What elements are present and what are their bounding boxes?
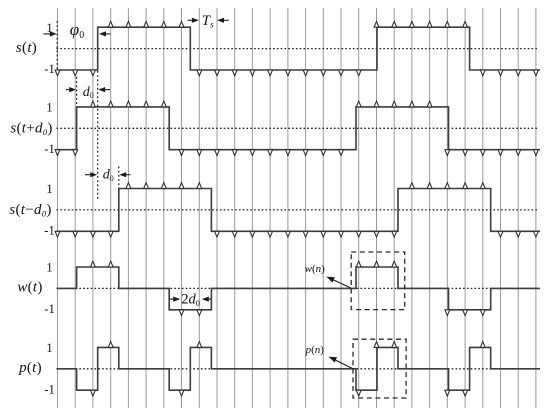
zero reference dotted line for s(t) [57,48,538,50]
dimension arrow right of 2d0 [207,298,211,300]
svg-text:-1: -1 [44,224,54,238]
svg-text:2d0: 2d0 [181,291,200,308]
zero reference dotted line for s(t-d0) [57,209,538,211]
waveform p(t) [57,347,541,390]
svg-text:w(t): w(t) [17,280,42,296]
sample arrows down (-1) for w(t) [179,310,485,316]
svg-text:-1: -1 [44,382,54,396]
dotted reference line at s(t-d0) step (x=118.8) [118,167,120,189]
sample arrows down (-1) for s(t) [55,70,538,76]
waveform s(t) [57,27,541,70]
svg-text:1: 1 [46,261,52,275]
dimension arrow left of phi0 (under the "1") [44,33,52,35]
svg-text:-1: -1 [44,62,54,76]
dimension arrow right of Ts [223,19,229,21]
zero reference dotted line for w(t) [57,287,538,289]
waveform w(t) [57,267,541,310]
dashed box around p(n) samples [353,339,406,398]
dimension arrow left of d0 (second) [85,174,92,176]
svg-text:1: 1 [46,101,52,115]
svg-text:s(t−d0): s(t−d0) [9,202,51,219]
callout arrow from p(t) zero line to label p(n) [334,359,354,369]
zero reference dotted line for p(t) [57,368,538,370]
sample arrows up (+1) for s(t-d0) [126,183,485,189]
svg-text:d0: d0 [103,168,114,183]
svg-text:-1: -1 [44,302,54,316]
svg-text:φ0: φ0 [70,20,84,41]
dimension arrow right of d0 (first) [104,89,110,91]
svg-text:p(t): p(t) [18,360,42,376]
sample arrows up (+1) for s(t+d0) [91,101,433,107]
dimension arrow left of 2d0 [170,298,175,300]
sample arrows down (-1) for s(t+d0) [55,150,538,156]
waveform s(t-d0) [57,189,541,232]
dotted reference line at s(t+d0) step (x=76.6) [76,77,78,107]
zero reference dotted line for s(t+d0) [57,127,538,129]
sample arrows down (-1) for p(t) [91,390,468,396]
sample arrows up (+1) for p(t) [108,342,485,348]
sample arrows up (+1) for s(t) [108,21,467,27]
dimension arrow left of d0 (first) [66,89,71,91]
sample arrows down (-1) for s(t-d0) [55,231,538,237]
svg-text:Ts: Ts [202,13,214,30]
svg-text:-1: -1 [44,142,54,156]
dimension arrow left of Ts [188,19,194,21]
dimension arrow right of phi0 (at s(t) step) [105,33,111,35]
svg-text:1: 1 [46,341,52,355]
dotted reference line at s(t) step (x=97.7) [97,71,99,199]
svg-text:p(n): p(n) [305,344,325,356]
sample arrows up (+1) for w(t) [91,261,397,267]
dashed box around w(n) samples [351,252,405,310]
dimension arrow right of d0 (second) [125,174,131,176]
svg-text:w(n): w(n) [305,263,326,275]
svg-text:s(t+d0): s(t+d0) [10,120,52,137]
callout arrow from w(t) zero line to label w(n) [332,279,351,288]
svg-text:d0: d0 [83,85,94,100]
svg-text:1: 1 [46,182,52,196]
waveform s(t+d0) [57,107,541,150]
svg-text:s(t): s(t) [16,40,37,56]
dotted reference line at t=0 (phase origin) [56,21,58,70]
